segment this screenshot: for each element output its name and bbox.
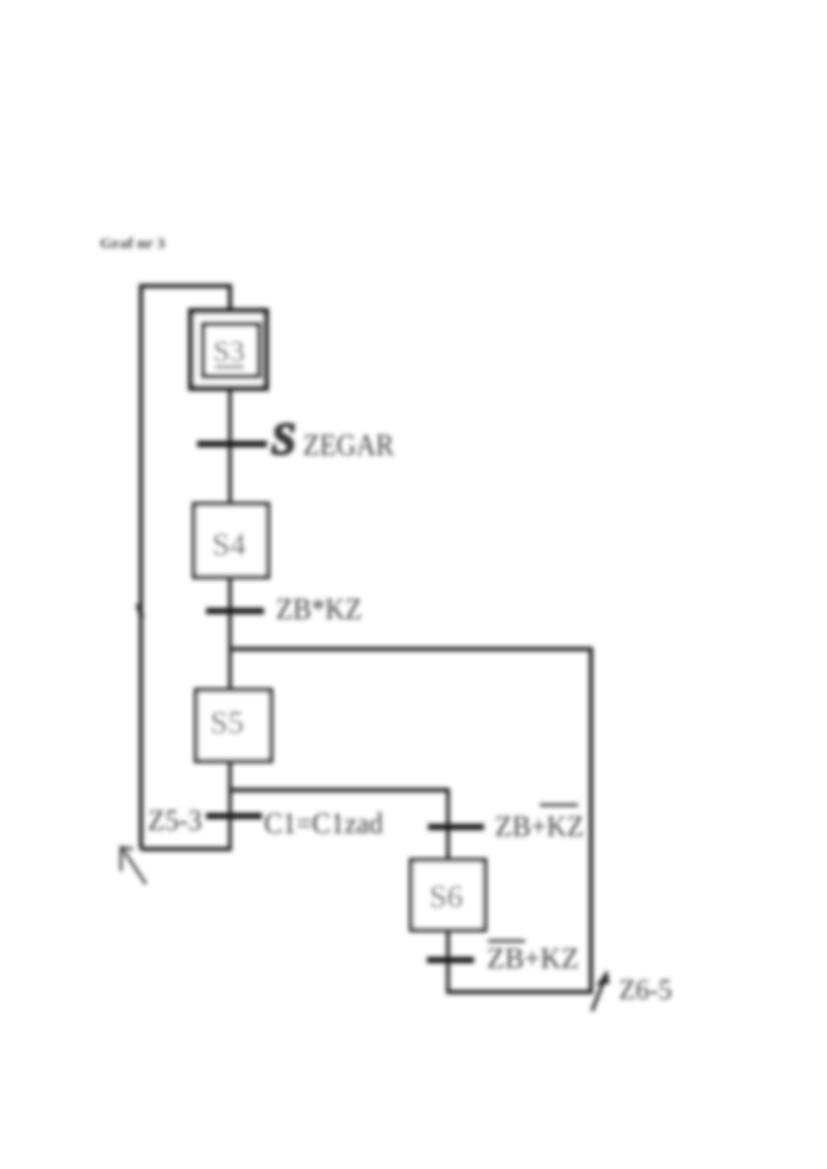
wire bottom horizontal to right column <box>446 990 593 995</box>
step S6 box <box>411 860 485 930</box>
wire bottom loop horizontal <box>141 847 231 852</box>
wire branch horizontal to right column <box>228 647 591 652</box>
svg-text:S4: S4 <box>212 526 246 562</box>
svg-text:S6: S6 <box>429 878 463 914</box>
transition T3 crossbar <box>206 813 262 820</box>
wire top feedback loop: S3 top stub, top horizontal, left vertical <box>141 286 230 849</box>
transition T1 crossbar <box>197 441 267 448</box>
svg-text:ZB*KZ: ZB*KZ <box>276 591 362 626</box>
svg-text:Z5-3: Z5-3 <box>148 804 202 837</box>
wire sub-branch horizontal to S6 column <box>228 788 448 793</box>
wire right column vertical <box>589 647 594 992</box>
step S3 inner box <box>203 324 259 377</box>
step S3 label underline <box>215 366 244 369</box>
svg-text:S5: S5 <box>210 704 244 740</box>
svg-text:S: S <box>271 414 296 464</box>
wire S6 to bottom <box>446 928 450 992</box>
svg-text:ZEGAR: ZEGAR <box>303 427 394 462</box>
wire S4 to S5 <box>228 575 232 692</box>
transition T4 crossbar <box>428 824 484 831</box>
svg-text:S3: S3 <box>213 335 245 368</box>
transition T2 crossbar <box>206 608 264 615</box>
svg-text:Z6-5: Z6-5 <box>619 975 672 1006</box>
wire S3 to S4 <box>228 386 232 506</box>
flash arrow at Z6-5 corner <box>592 971 609 1011</box>
overline over KZ of T4 condition <box>540 804 578 807</box>
step S3 (initial, double border) outer box <box>191 311 266 388</box>
wire sub-branch vertical down to S6 <box>446 788 450 862</box>
overline over ZB of T5 condition <box>488 940 525 943</box>
transition T5 crossbar <box>427 957 474 964</box>
svg-text:C1=C1zad: C1=C1zad <box>264 807 383 840</box>
junction tick on left vertical <box>138 604 142 618</box>
svg-text:Graf nr 3: Graf nr 3 <box>100 236 165 252</box>
return arrow bottom-left (to loop corner) <box>120 846 146 884</box>
step S5 box <box>196 690 271 761</box>
svg-text:ZB+KZ: ZB+KZ <box>495 810 584 843</box>
wire main vertical S5 to bottom loop <box>228 759 232 851</box>
step S4 box <box>194 504 268 577</box>
svg-text:ZB+KZ: ZB+KZ <box>487 942 579 975</box>
